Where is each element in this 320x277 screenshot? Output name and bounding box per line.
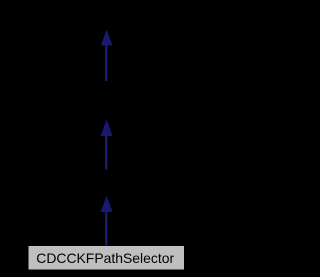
inheritance arrow 3 (bottom): head [101, 196, 113, 212]
class node box border [28, 245, 185, 270]
doxygen-style class inheritance diagram: CDCCKFPathSelector [0, 0, 213, 277]
inheritance arrow 1 (top): head [101, 30, 113, 46]
svg-text:CDCCKFPathSelector: CDCCKFPathSelector [36, 250, 174, 266]
inheritance arrow 2 (middle): head [101, 120, 113, 136]
inheritance arrow 1 (top): shaft [105, 44, 108, 81]
class node box fill [28, 246, 183, 269]
inheritance arrow 3 (bottom): shaft [105, 211, 108, 246]
inheritance arrow 2 (middle): shaft [105, 135, 108, 170]
